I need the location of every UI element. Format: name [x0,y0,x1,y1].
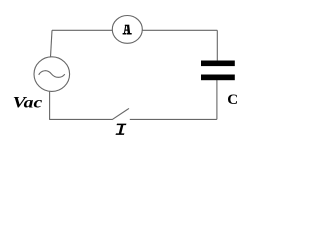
switch label I [116,124,127,135]
wire bottom-left vertical stub [49,92,51,120]
capacitor C1 top plate [201,61,235,67]
ammeter U1 circle [112,16,142,44]
AC source sine wave [39,71,65,78]
svg-text:Vac: Vac [13,94,43,111]
wire bottom rail left segment [49,118,112,120]
wire top-left vertical stub [51,30,53,57]
wire capacitor top stub [216,30,218,60]
wire bottom-right vertical stub [216,80,218,119]
wire bottom rail right segment [130,118,217,120]
capacitor C1 bottom plate [201,75,235,81]
wire top rail left segment [52,29,112,31]
switch S1 blade [112,108,129,119]
svg-text:C: C [227,92,238,108]
AC source V1 circle [34,57,70,92]
ammeter label A [125,25,130,26]
wire top rail right segment [142,29,217,31]
